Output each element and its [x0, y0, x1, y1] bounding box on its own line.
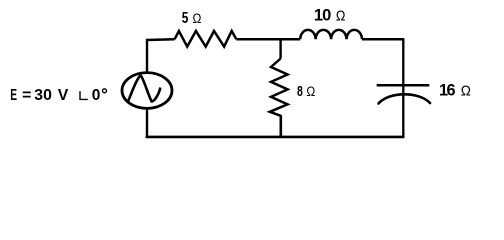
source E ellipse	[122, 73, 172, 109]
capacitor C 16ohm curved bottom plate	[379, 94, 431, 103]
svg-text:5: 5	[182, 10, 189, 27]
wire left riser bottom	[146, 109, 148, 138]
label angle symbol	[80, 91, 88, 99]
wire top-right horizontal	[362, 38, 403, 41]
svg-text:Ω: Ω	[336, 7, 346, 24]
wire top-left horizontal	[147, 38, 175, 41]
svg-text:Ω: Ω	[193, 10, 202, 26]
svg-text:16: 16	[439, 82, 456, 100]
svg-text:Ω: Ω	[461, 83, 471, 100]
svg-text:8: 8	[297, 83, 303, 100]
resistor R 5ohm zigzag	[175, 31, 237, 47]
svg-text:0: 0	[92, 87, 101, 104]
wire left riser top	[146, 39, 148, 72]
wire middle branch top stub	[279, 38, 281, 58]
wire top-middle horizontal	[236, 38, 300, 41]
source E sine wave	[128, 75, 161, 102]
wire bottom horizontal	[146, 136, 405, 139]
wire middle branch bottom stub	[279, 115, 282, 138]
capacitor C 16ohm top plate	[377, 84, 430, 87]
resistor R 8ohm zigzag	[270, 59, 288, 116]
label degree symbol	[103, 89, 107, 93]
svg-text:=: =	[22, 87, 31, 104]
inductor L 10ohm coils	[300, 30, 362, 39]
svg-text:E: E	[10, 87, 17, 104]
svg-text:30: 30	[34, 87, 52, 104]
svg-text:Ω: Ω	[306, 83, 315, 99]
svg-text:V: V	[58, 87, 69, 104]
wire right riser	[402, 38, 404, 138]
svg-text:10: 10	[314, 7, 331, 25]
